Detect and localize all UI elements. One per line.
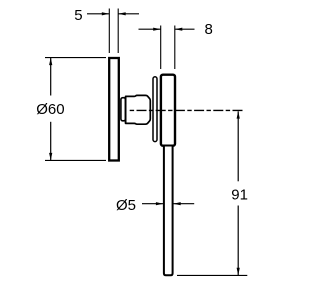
dimension 5: extension lines [108,9,110,54]
dimension 91: bottom extension line [177,274,247,276]
dimension 8: dimension lines [139,28,161,30]
dimension 5: arrows [102,12,110,15]
svg-text:8: 8 [205,21,213,38]
svg-text:5: 5 [74,7,82,24]
dimension Ø60: extension lines [45,57,106,59]
svg-text:Ø60: Ø60 [36,101,64,118]
dimension Ø5: dimension lines [142,203,163,205]
dimension 91: dimension line [237,111,239,181]
dimension 8: extension lines [160,26,162,70]
svg-text:91: 91 [231,186,248,203]
dimension Ø60: arrows [49,58,52,66]
wall plate (rosette, side view) [109,58,119,161]
dimension Ø60: dimension line [50,58,52,96]
dimension 5: dimension lines [87,13,109,15]
dimension 91: arrows [237,111,240,119]
svg-text:Ø5: Ø5 [116,197,136,214]
dimension 8: arrows [153,28,161,31]
lever rod (Ø5) [164,147,173,276]
knob body left edge [125,96,127,123]
centerline (dash-dot) [130,109,243,111]
disc (washer between knob and rose) [153,77,157,142]
rose (8 mm plate) [161,75,175,146]
knob body [126,95,151,124]
collar (knob neck at plate) [121,98,126,121]
dimension Ø5: arrows [156,202,164,205]
